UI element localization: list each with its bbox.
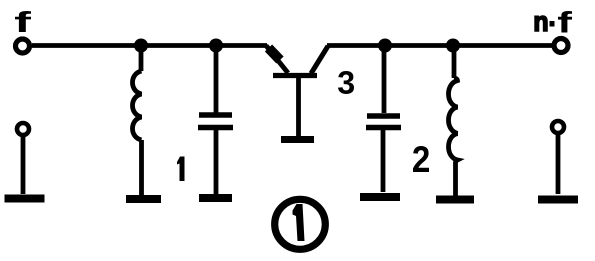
inductor L2 lead to ground — [453, 162, 458, 196]
wire: input terminal to emitter — [32, 43, 267, 48]
capacitor C2 lead from junction — [382, 46, 387, 114]
node: junction at L2 — [446, 39, 460, 53]
transistor Q1 emitter diagonal — [266, 46, 288, 74]
ground bar under L1 — [126, 195, 161, 203]
inductor L2 lead from junction — [452, 46, 457, 79]
inductor L1 coil — [133, 71, 142, 140]
transistor Q1 base lead down — [296, 78, 301, 136]
capacitor C1 lead to ground — [214, 130, 219, 195]
capacitor C2 bottom plate — [366, 125, 401, 131]
inductor L1 lead from junction — [139, 46, 144, 72]
output terminal (n·f) — [554, 39, 568, 53]
inductor L2 coil — [449, 78, 458, 163]
node: junction at L1 — [134, 39, 148, 53]
capacitor C2 lead to ground — [381, 130, 386, 192]
left auxiliary terminal circle — [17, 123, 29, 135]
label middle dot of n·f — [550, 21, 555, 27]
ground bar under right auxiliary terminal — [538, 196, 578, 204]
label 1 — [177, 157, 185, 182]
transistor Q1 emitter arrowhead — [269, 48, 281, 60]
wire: collector to output terminal — [327, 43, 553, 48]
capacitor C2 top plate — [367, 113, 400, 119]
ground bar under C1 — [199, 194, 232, 202]
figure number digit 1 — [293, 204, 305, 241]
capacitor C1 bottom plate — [198, 125, 233, 131]
right auxiliary terminal circle — [552, 121, 564, 133]
input terminal (f) — [16, 39, 30, 53]
capacitor C1 top plate — [199, 112, 232, 118]
node: junction at C1 — [209, 39, 223, 53]
left auxiliary terminal lead — [21, 135, 26, 194]
label 2 — [413, 146, 429, 172]
ground bar under C2 — [360, 193, 400, 201]
transistor Q1 collector diagonal — [311, 46, 328, 74]
capacitor C1 lead from junction — [214, 46, 219, 113]
label f — [15, 11, 31, 32]
figure number circle — [275, 199, 326, 249]
ground bar under left auxiliary terminal — [5, 195, 45, 203]
transistor Q1 ground bar — [281, 136, 314, 143]
node: junction at C2 — [378, 39, 392, 53]
ground bar under L2 — [436, 196, 474, 204]
inductor L1 lead to ground — [139, 140, 144, 196]
label f of n·f — [558, 11, 572, 33]
right auxiliary terminal lead — [556, 133, 561, 194]
label 3 — [338, 71, 354, 94]
transistor Q1 base bar — [273, 73, 317, 78]
label n of n·f — [535, 16, 547, 31]
